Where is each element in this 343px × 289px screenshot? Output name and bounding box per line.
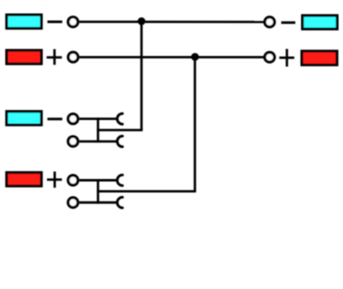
wire (group 2 vertical tie bar): [97, 179, 99, 204]
terminal circle (row 2 right): [265, 52, 275, 62]
wire (group 1 mid horizontal): [97, 129, 143, 131]
wire (row 3 lower stub): [79, 140, 117, 142]
wire (row 3 upper stub): [79, 118, 117, 120]
wire (group 2 mid horizontal): [97, 190, 196, 192]
terminal circle (row 1 right): [265, 17, 275, 27]
minus sign (row 1 right): [281, 21, 295, 24]
minus sign (row 1 left): [47, 20, 62, 23]
plus sign (row 4): [47, 172, 62, 188]
wire (row 4 lower stub): [79, 201, 117, 203]
terminal block BL4 (red, row 4 left): [7, 173, 42, 187]
terminal block BR2 (red, row 2 right): [302, 51, 337, 65]
junction dot (node B): [191, 53, 199, 61]
wire (row 4 upper stub): [79, 179, 117, 181]
terminal block BL1 (cyan, top-left): [7, 15, 42, 28]
wire (vertical drop from node B): [194, 57, 196, 191]
terminal circle (row 3 upper): [68, 114, 78, 124]
minus sign (row 3): [47, 118, 62, 121]
plus sign (row 2 left): [47, 49, 62, 65]
terminal circle (row 2 left): [68, 52, 78, 62]
terminal block BL3 (cyan, row 3 left): [7, 111, 42, 125]
terminal circle (row 1 left): [68, 17, 78, 27]
terminal circle (row 3 lower): [68, 137, 78, 147]
clip contact (row 3 upper): [117, 114, 122, 125]
clip contact (row 4 upper): [117, 175, 122, 186]
wire (vertical drop from node A): [140, 22, 142, 130]
plus sign (row 2 right): [279, 49, 294, 67]
terminal block BL2 (red, row 2 left): [7, 50, 42, 64]
wire (row 2 horizontal): [79, 56, 263, 58]
wire (group 1 vertical tie bar): [97, 118, 99, 143]
clip contact (row 3 lower): [117, 136, 122, 147]
wire (row 1 horizontal): [79, 21, 263, 24]
terminal block BR1 (cyan, top-right): [302, 16, 337, 30]
clip contact (row 4 lower): [117, 197, 122, 208]
terminal circle (row 4 lower): [68, 198, 78, 208]
junction dot (node A): [138, 17, 146, 25]
terminal circle (row 4 upper): [68, 175, 78, 185]
